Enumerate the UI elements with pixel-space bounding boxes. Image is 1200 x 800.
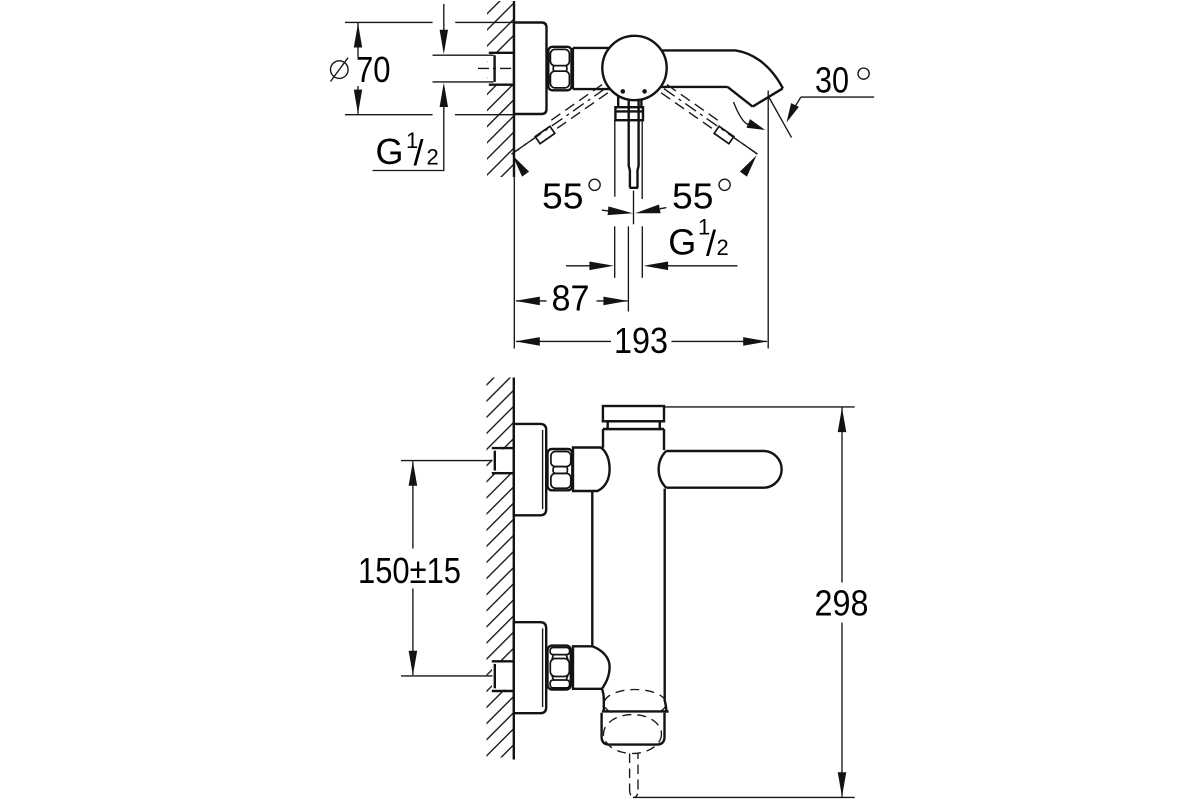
svg-text:193: 193 bbox=[614, 320, 668, 361]
wall hatching (lower view) bbox=[487, 378, 514, 758]
lower supply pipe (lower view) bbox=[492, 661, 514, 691]
dimension D70 bbox=[331, 22, 515, 114]
upper supply pipe (lower view) bbox=[492, 448, 514, 473]
mixer body (lower view) bbox=[592, 429, 666, 711]
svg-text:G: G bbox=[376, 131, 404, 172]
svg-text:30: 30 bbox=[815, 60, 849, 101]
dimension 298 bbox=[633, 407, 869, 798]
hose nipple (dashed) bbox=[629, 754, 631, 790]
svg-text:/: / bbox=[414, 132, 424, 173]
outlet cup bbox=[602, 713, 665, 745]
svg-text:298: 298 bbox=[815, 583, 869, 624]
control ball housing (upper view) bbox=[602, 36, 666, 100]
lower union nut (lower view) bbox=[548, 646, 571, 690]
cartridge cap (lower view) bbox=[603, 406, 664, 421]
dimension 150+-15 bbox=[358, 461, 493, 676]
55 deg vertex arrows (X) bbox=[602, 205, 667, 216]
lower escutcheon (lower view) bbox=[514, 622, 546, 713]
svg-text:55: 55 bbox=[672, 176, 714, 217]
dimension 193 bbox=[515, 320, 767, 361]
spout tip extension line bbox=[767, 91, 769, 349]
svg-text:70: 70 bbox=[356, 49, 391, 90]
wall face line (lower view) bbox=[513, 378, 515, 760]
upper connection dome (lower view) bbox=[573, 448, 610, 492]
svg-text:87: 87 bbox=[552, 278, 590, 319]
svg-text:55: 55 bbox=[542, 176, 584, 217]
valve body cylinder (upper view) bbox=[572, 48, 636, 89]
svg-text:150±15: 150±15 bbox=[358, 550, 461, 591]
lower dashed bore ellipse bbox=[604, 715, 662, 754]
svg-text:2: 2 bbox=[427, 145, 439, 170]
dimension G1/2 (outlet) bbox=[566, 215, 738, 271]
lever neck socket arc bbox=[659, 451, 667, 488]
svg-text:2: 2 bbox=[717, 235, 729, 260]
lever handle (lower view) bbox=[666, 451, 781, 488]
tilted handle position right (55 deg) bbox=[661, 85, 757, 177]
dimension 30 deg bbox=[734, 60, 875, 138]
pipe bore extension lines (G1/2 wall) bbox=[433, 54, 494, 56]
wall extension line (to 87/193 dims) bbox=[513, 177, 515, 349]
tilted handle position left (55 deg) bbox=[512, 85, 608, 177]
outlet thread extension lines (upper area) bbox=[614, 120, 616, 197]
lever handle neck (upper view) bbox=[617, 96, 619, 107]
screw dots on ball bbox=[621, 89, 626, 94]
lower connection dome (lower view) bbox=[573, 646, 610, 689]
handle axis centerline bbox=[633, 191, 635, 225]
svg-text:/: / bbox=[706, 223, 716, 264]
dimension 87 bbox=[515, 278, 628, 319]
concealed supply pipe (upper view) bbox=[487, 53, 514, 85]
upper escutcheon (lower view) bbox=[514, 424, 546, 515]
svg-text:G: G bbox=[668, 222, 696, 263]
cap ring (lower view) bbox=[608, 421, 660, 429]
lever rod (upper view) bbox=[629, 100, 630, 188]
upper union nut (lower view) bbox=[548, 449, 573, 490]
dimension G1/2 (wall connection) bbox=[373, 4, 449, 173]
wall hatching (upper view) bbox=[487, 1, 514, 177]
upper dashed bore ellipse bbox=[604, 690, 666, 718]
outlet extension lines (below X) bbox=[614, 226, 616, 277]
handle collar (upper view) bbox=[615, 107, 643, 120]
union nut (upper view) bbox=[548, 47, 571, 91]
escutcheon flange (upper view) bbox=[514, 23, 547, 115]
wall face line (upper view) bbox=[513, 1, 515, 177]
spout (upper view) bbox=[661, 50, 783, 106]
pipe centerline (dash-dot) bbox=[478, 67, 514, 69]
bottom separation line (thick) bbox=[602, 710, 669, 712]
